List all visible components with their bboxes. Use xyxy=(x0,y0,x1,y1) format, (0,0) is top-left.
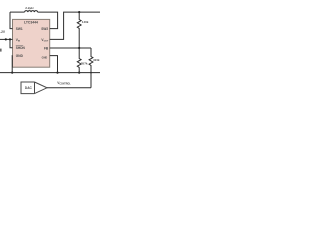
wire SW1 to top rail xyxy=(10,12,13,29)
op-amp U1 LTC3444 IC body xyxy=(13,19,50,67)
wire VIN input rail xyxy=(0,38,13,40)
wire VOUT up to output rail xyxy=(50,12,100,39)
svg-text:140k: 140k xyxy=(82,20,89,24)
wire SHDN tie to VIN xyxy=(10,39,13,47)
wire VCONTROL xyxy=(47,87,91,89)
wire FB line xyxy=(50,47,91,49)
node VOUT rail junction xyxy=(78,11,80,13)
svg-text:GND: GND xyxy=(16,54,24,58)
svg-text:SW2: SW2 xyxy=(41,27,48,31)
svg-text:SHDN: SHDN xyxy=(16,46,26,50)
svg-text:357k: 357k xyxy=(81,61,88,65)
resistor R3 324k xyxy=(89,48,93,88)
node R2 on rail xyxy=(78,72,80,74)
svg-text:4.2V: 4.2V xyxy=(0,30,6,34)
svg-text:SW1: SW1 xyxy=(16,27,23,31)
wire inductor to SW2 xyxy=(38,12,58,29)
node VIN/SHDN junction xyxy=(9,38,11,40)
svg-text:324k: 324k xyxy=(93,58,100,62)
node GND right on rail xyxy=(56,72,58,74)
edge-cut glyph left xyxy=(0,49,2,52)
wire ground rail xyxy=(0,72,100,74)
node FB junction xyxy=(78,47,80,49)
inductor L1 2.2uH xyxy=(25,11,38,13)
node R3 rail crossing xyxy=(90,72,92,74)
resistor R2 357k xyxy=(77,48,81,73)
wire top rail left xyxy=(10,11,25,13)
node input junction xyxy=(5,38,7,40)
DAC block xyxy=(21,82,47,94)
svg-text:2.2µH: 2.2µH xyxy=(25,6,34,10)
svg-text:GND: GND xyxy=(42,56,48,59)
svg-text:LTC3444: LTC3444 xyxy=(24,20,38,24)
svg-text:FB: FB xyxy=(44,46,49,50)
svg-text:DAC: DAC xyxy=(25,86,33,90)
wire GND left pin down xyxy=(11,56,13,73)
wire GND right pin down xyxy=(50,56,58,73)
node GND left on rail xyxy=(11,72,13,74)
resistor R1 140k xyxy=(77,12,81,48)
